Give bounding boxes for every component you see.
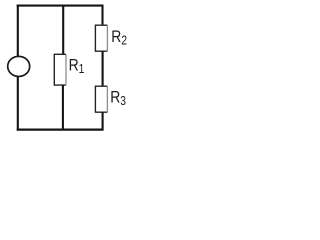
label R3	[110, 88, 126, 108]
label R1	[69, 56, 85, 76]
resistor R1	[54, 54, 66, 85]
wire middle lower	[62, 85, 64, 131]
resistor R3	[95, 86, 107, 112]
svg-text:R1: R1	[69, 56, 85, 76]
source V1	[8, 56, 30, 76]
wire left upper	[17, 5, 19, 57]
wire right middle	[102, 51, 104, 87]
svg-text:R2: R2	[111, 28, 127, 48]
wire left lower	[17, 77, 19, 131]
svg-text:R3: R3	[110, 88, 126, 108]
wire bottom	[17, 129, 104, 131]
wire right upper	[101, 5, 103, 26]
resistor R2	[95, 25, 107, 51]
wire top	[17, 5, 104, 7]
wire right lower	[102, 112, 104, 131]
label R2	[111, 28, 127, 48]
wire middle upper	[62, 5, 64, 55]
